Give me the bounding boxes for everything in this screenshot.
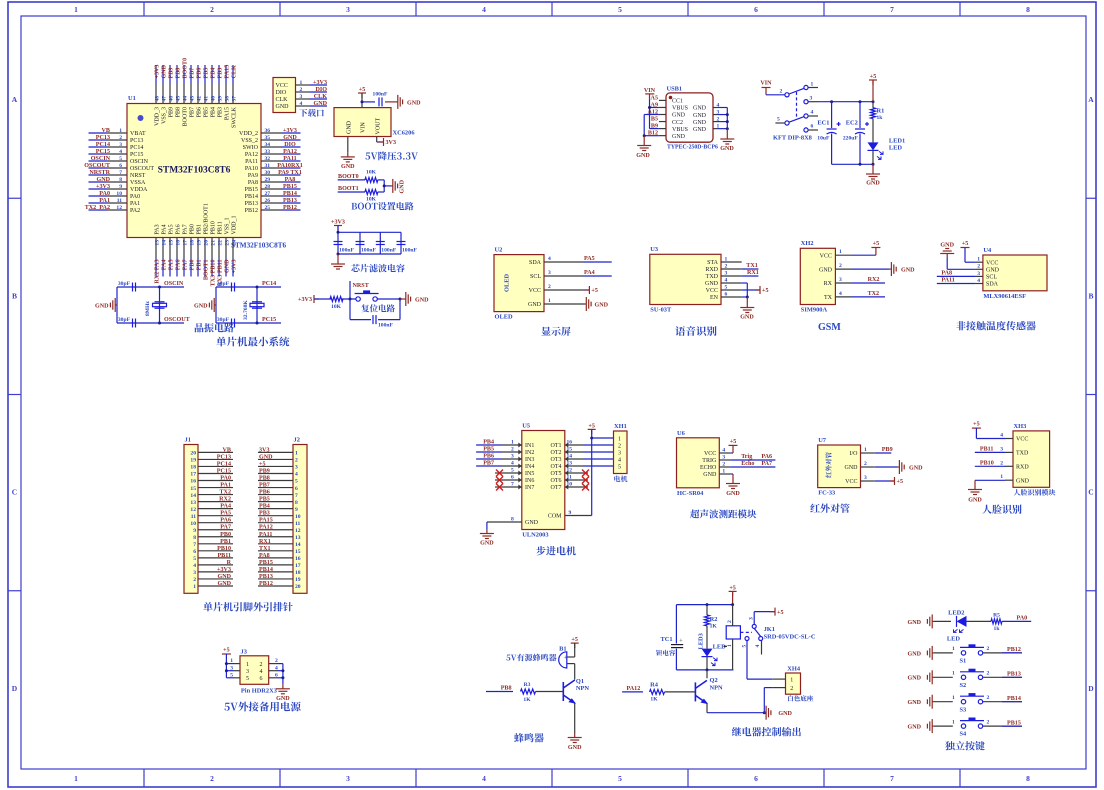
svg-text:+3V3: +3V3 [298,297,312,303]
svg-text:VSSA: VSSA [130,180,146,186]
svg-text:+5: +5 [762,288,769,294]
J1 pin 5 / net PB11 [193,553,233,562]
resistor 10K BOOT0 [365,170,378,183]
U1 pin 27 PB14 / net PB14 [245,191,301,200]
svg-text:47: 47 [162,96,168,102]
svg-text:CLK: CLK [314,94,327,100]
svg-text:GND: GND [341,164,355,170]
svg-text:21: 21 [211,240,217,246]
svg-text:PB14: PB14 [283,191,297,197]
svg-text:JK1: JK1 [764,626,775,633]
svg-text:GND: GND [1016,478,1030,484]
relay JK1 coil [726,605,740,670]
svg-text:IN1: IN1 [525,443,534,449]
svg-text:24: 24 [232,240,238,246]
svg-text:PB5: PB5 [483,447,494,453]
svg-text:PB9: PB9 [882,447,893,453]
svg-text:PA10RX1: PA10RX1 [277,163,303,169]
svg-text:RX2: RX2 [868,277,880,283]
U1 pin 43 PB7 / net PB7 [190,65,196,117]
svg-text:PC13: PC13 [96,135,110,141]
svg-text:5: 5 [119,156,122,162]
transistor Q2 NPN [695,670,723,704]
svg-text:GND: GND [283,135,297,141]
svg-text:+5: +5 [973,422,980,428]
svg-text:GND: GND [703,472,717,478]
svg-text:100nF: 100nF [378,323,394,329]
svg-text:7: 7 [295,493,298,499]
svg-text:1K: 1K [650,696,658,702]
svg-text:1: 1 [864,447,867,453]
svg-text:TX: TX [824,295,833,301]
svg-text:20: 20 [295,584,301,590]
XH4 pin 2 [764,686,793,713]
gnd earth USB right [720,129,734,152]
ic U5 ULN2003 body [522,431,565,530]
J2 pin 10 / net PB3 [258,511,301,520]
node PC15 [256,317,277,325]
svg-text:PB1: PB1 [220,539,231,545]
svg-text:2: 2 [790,686,793,692]
wire XH2 RX to RX2 [852,277,885,283]
svg-text:28: 28 [265,184,271,190]
svg-text:PB5: PB5 [204,68,210,79]
J2 pin 9 / net PB4 [258,504,298,513]
J2 pin 18 / net PB14 [258,567,301,576]
svg-text:PB7: PB7 [483,461,494,467]
svg-text:PA5: PA5 [169,224,175,234]
svg-text:PB4: PB4 [483,440,494,446]
svg-text:GND: GND [907,676,921,682]
label download port [299,109,324,117]
J1 pin 11 / net PA5 [191,511,233,520]
svg-text:+3V3: +3V3 [331,220,345,226]
ic U3 SU-03T body [650,254,721,304]
gnd earth USB left [636,136,651,159]
svg-text:GND: GND [693,106,707,112]
svg-text:HC-SR04: HC-SR04 [677,490,704,497]
svg-text:8: 8 [193,535,196,541]
svg-text:23: 23 [225,240,231,246]
svg-text:PB4: PB4 [211,68,217,79]
U6 pin 3 TRIG [702,454,730,464]
svg-text:PB2/BOOT1: PB2/BOOT1 [204,203,210,234]
svg-text:6: 6 [754,774,758,783]
svg-text:4: 4 [295,472,298,478]
capacitor 100nF filter 1 [334,242,355,254]
U1 pin 4 PC15 / net PC15 [89,149,144,158]
wire relay NO to XH4 pin1 [747,641,772,680]
svg-text:B1: B1 [559,646,566,653]
svg-text:3: 3 [295,465,298,471]
resistor 10K reset [330,297,343,311]
U5 pin 13 OT4 [551,461,584,471]
label buzzer [514,733,544,742]
U1 pin 21 PB10 / net TX3&#160;PB10 [211,221,217,286]
U5 pin 8 GND [487,517,539,527]
J2 pin 12 / net PA12 [258,525,301,534]
svg-text:GND: GND [568,745,582,751]
J3 pins 1/2 [226,658,283,668]
U4 pin 4 SDA [976,278,999,288]
capacitor 30pF bottom crystal1 [118,317,136,328]
svg-text:3: 3 [246,669,249,675]
gnd port U4 [940,243,975,270]
svg-text:4: 4 [755,645,761,648]
wire relay NC stub [761,641,763,655]
svg-text:8: 8 [295,500,298,506]
label independent buttons [945,741,985,750]
J1 pin 1 / net GND [193,581,233,590]
svg-text:OSCOUT: OSCOUT [130,166,154,172]
svg-text:10K: 10K [331,304,342,310]
svg-text:100nF: 100nF [361,248,377,254]
wire U6 VCC to +5 [729,439,738,453]
J1 pin 10 / net PA6 [190,518,233,527]
svg-text:5: 5 [230,672,233,678]
svg-text:18: 18 [295,570,301,576]
svg-text:VSS_3: VSS_3 [162,107,168,124]
svg-text:A: A [1088,95,1094,104]
svg-text:100nF: 100nF [402,248,418,254]
svg-text:PB0: PB0 [190,260,196,271]
svg-text:25: 25 [265,205,271,211]
svg-text:VSS_2: VSS_2 [241,138,258,144]
svg-text:34: 34 [265,142,271,148]
svg-text:2: 2 [725,263,728,269]
U1 pin 18 PB0 / net PB0 [190,224,196,276]
U1 pin 48 VDD_3 / net +3V3 [155,65,161,126]
J1 pin 12 / net PA4 [190,504,233,513]
svg-text:GND: GND [162,64,168,78]
svg-text:2: 2 [548,284,551,290]
U6 pin 2 ECHO [700,461,730,471]
XH4 pin 1 [772,677,793,683]
svg-text:SDA: SDA [986,282,999,288]
U1 pin 36 VDD_2 / net +3V3 [239,128,301,137]
svg-text:GND: GND [480,541,494,547]
label 5V backup power [224,702,300,712]
svg-text:VOUT: VOUT [376,118,382,135]
svg-text:PB9: PB9 [169,107,175,117]
svg-text:OLED: OLED [504,274,511,292]
svg-text:SWIO: SWIO [243,145,259,151]
svg-text:GND: GND [693,127,707,133]
svg-text:U7: U7 [818,437,827,444]
svg-text:14: 14 [162,240,168,246]
wire U4 SCL to PA8 [937,270,976,276]
svg-text:TX2: TX2 [219,490,231,496]
capacitor 30pF top crystal1 [118,281,136,292]
svg-text:VIN: VIN [361,122,367,133]
svg-text:XC6206: XC6206 [393,130,416,137]
+3V3 power port reset [298,295,319,303]
svg-text:PC15: PC15 [262,317,276,323]
svg-text:PA2: PA2 [130,208,140,214]
relay contacts [740,624,762,640]
XH3 pin 2 RXD [1000,460,1029,470]
svg-text:BOOT0: BOOT0 [183,107,189,126]
svg-text:+5: +5 [873,241,880,247]
connector J1 body [184,445,198,594]
U1 pin 37 SWCLK / net CLK [232,65,238,128]
svg-text:39: 39 [218,96,224,102]
svg-text:29: 29 [265,177,271,183]
power port 3V3 [379,138,384,146]
svg-text:5: 5 [777,117,780,123]
svg-text:PA9: PA9 [248,173,258,179]
svg-text:STM32F103C8T6: STM32F103C8T6 [231,242,287,250]
svg-text:SRD-05VDC-SL-C: SRD-05VDC-SL-C [764,633,816,640]
mcu U1 STM32F103C8T6 body [127,104,261,238]
svg-text:TX2: TX2 [868,291,880,297]
svg-text:PA10: PA10 [245,166,258,172]
+5 power port U4 [961,241,976,262]
U5 pin 7 IN7 [502,482,534,492]
svg-text:PA11: PA11 [283,156,296,162]
svg-text:1: 1 [839,249,842,255]
gnd port button S3 row [907,695,952,709]
svg-text:+3V3: +3V3 [96,184,110,190]
svg-text:SDA: SDA [529,260,542,266]
svg-text:3: 3 [725,270,728,276]
svg-text:B5: B5 [651,117,658,123]
svg-text:1K: 1K [523,697,531,703]
svg-text:OSCOUT: OSCOUT [84,163,110,169]
svg-text:GND: GND [740,315,754,321]
svg-text:PB11: PB11 [217,553,231,559]
U6 pin 1 GND [703,468,730,478]
J1 pin 3 / net +3V3 [193,567,233,576]
svg-text:19: 19 [197,240,203,246]
svg-text:Trig: Trig [741,454,752,460]
gnd port LED2 row [907,614,951,628]
U1 pin 16 PA6 / net PA6 [176,224,182,276]
svg-text:PB15: PB15 [1007,720,1021,726]
svg-text:2: 2 [210,774,214,783]
U1 pin 35 VSS_2 / net GND [241,135,301,144]
svg-text:PB4: PB4 [259,504,270,510]
label MCU pin headers [203,602,292,611]
wire S2 to PB13 [983,672,1022,678]
crystal Y2 32.768K [243,300,264,320]
svg-text:VCC: VCC [706,288,718,294]
J1 pin 20 / net VB [190,447,233,456]
svg-text:2: 2 [987,719,990,725]
U3 pin 5 VCC [706,284,742,294]
svg-text:8: 8 [511,517,514,523]
wire U6 TRIG to PA6 [730,454,775,460]
svg-text:U1: U1 [128,95,136,102]
wire U3 TXD to RX1 [742,270,759,276]
download port pin 4 GND / net GND [276,101,328,110]
svg-text:VCC: VCC [820,253,832,259]
USB1 pin B12 GND [648,131,686,140]
U1 pin 42 PB6 / net PB6 [197,65,203,117]
svg-text:GND: GND [415,297,429,303]
svg-text:R: R [227,560,232,566]
svg-text:R4: R4 [650,681,659,688]
svg-text:4: 4 [300,101,303,107]
svg-text:PA0: PA0 [1017,615,1028,621]
USB right bus wire [726,108,729,131]
label voice recognition [675,326,716,336]
svg-text:8: 8 [119,177,122,183]
svg-text:15: 15 [169,240,175,246]
svg-text:PA4: PA4 [162,260,168,271]
svg-text:10: 10 [295,514,301,520]
svg-text:PB3: PB3 [218,107,224,117]
svg-text:USB1: USB1 [667,86,683,93]
svg-text:CLK: CLK [232,65,238,78]
U5 pin 9 COM [548,510,592,520]
USB1 right pin GND 3 [693,109,727,118]
svg-text:PA15: PA15 [225,107,231,120]
relay top rail [676,603,734,606]
U1 pin 10 PA0 / net PA0 [89,191,141,200]
svg-text:LED2: LED2 [948,610,964,617]
svg-text:PB15: PB15 [259,560,273,566]
svg-text:GND: GND [720,146,734,152]
svg-text:GND: GND [400,179,406,193]
wire U3 GND/EN to gnd [742,283,749,303]
label BOOT setting circuit [351,202,413,210]
svg-text:VDD_3: VDD_3 [155,107,161,126]
svg-text:SCL: SCL [530,274,541,280]
svg-text:PA5: PA5 [169,260,175,271]
svg-text:GND: GND [940,243,954,249]
svg-text:GND: GND [407,100,421,106]
wire XH2 TX to TX2 [852,291,885,297]
svg-text:8: 8 [1026,5,1030,14]
svg-text:XH2: XH2 [801,240,814,247]
svg-text:GND: GND [276,696,290,702]
reset circuit wires [314,298,404,320]
svg-text:42: 42 [197,96,203,102]
svg-text:SIM900A: SIM900A [801,307,828,314]
wire S1 to PB12 [983,647,1022,653]
svg-text:PB15: PB15 [245,187,258,193]
wire BOOT junction to gnd [383,180,391,192]
svg-text:12: 12 [295,528,301,534]
+5 power port XH3 [972,422,1005,439]
U1 pin 24 VDD_1 / net +3V3 [232,216,238,277]
wire S3 to PB14 [983,696,1022,702]
svg-text:PB8: PB8 [176,68,182,79]
svg-text:GND: GND [636,153,650,159]
svg-text:LED1: LED1 [889,137,905,144]
svg-text:PC15: PC15 [96,149,110,155]
+5 power port relay [729,585,737,604]
svg-text:3V3: 3V3 [386,140,397,146]
VIN power port USB [644,88,656,100]
U1 pin 40 PB4 / net PB4 [211,65,217,117]
svg-text:22: 22 [218,240,224,246]
svg-text:31: 31 [265,163,271,169]
wire relay common to +5 [754,608,783,625]
svg-text:3: 3 [119,142,122,148]
svg-text:FC-33: FC-33 [818,490,835,497]
+5 power port J3 [222,648,231,678]
connector J3 body [240,656,269,685]
svg-text:EN: EN [710,295,719,301]
U5 pin 10 OT7 [551,482,584,492]
svg-text:OT4: OT4 [551,464,562,470]
gnd port button S1 row [907,646,952,660]
svg-text:3: 3 [346,5,350,14]
U5 pin 1 IN1 [502,440,534,450]
gnd power port relay [764,706,792,720]
svg-text:13: 13 [190,500,196,506]
svg-text:NPN: NPN [710,685,724,692]
svg-text:PC15: PC15 [130,152,143,158]
svg-text:BOOT0: BOOT0 [338,174,359,180]
svg-text:2: 2 [618,443,621,449]
svg-text:16: 16 [176,240,182,246]
svg-text:PA12: PA12 [283,149,297,155]
J3 pins 3/4 [226,665,283,675]
svg-text:4: 4 [260,669,263,675]
svg-text:4: 4 [618,457,621,463]
gnd port button S4 row [907,719,952,733]
U2 pin 3 SCL [530,270,583,280]
svg-text:19: 19 [190,458,196,464]
svg-text:PA0: PA0 [130,194,140,200]
switch S4 [960,718,985,738]
relay bottom rail [676,668,733,671]
svg-text:DIO: DIO [284,142,296,148]
J2 pin 14 / net RX1 [258,539,301,548]
svg-text:+5: +5 [223,648,230,654]
svg-text:3: 3 [864,475,867,481]
capacitor EC2 220uF [843,102,869,165]
svg-text:PB6: PB6 [259,490,270,496]
svg-text:PB9: PB9 [169,68,175,79]
svg-text:PC14: PC14 [217,461,231,467]
svg-text:VSS_1: VSS_1 [225,217,231,234]
svg-text:PC13: PC13 [130,138,143,144]
XH3 pin 4 VCC [1000,433,1028,443]
switch S1 [960,644,985,664]
wire XH3 TXD to PB11 [975,446,1005,452]
svg-text:VCC: VCC [1016,437,1028,443]
ic U4 MLX90614ESF body [983,255,1047,291]
wire U7 I/O to PB9 [875,447,893,453]
switch S3 [960,693,985,713]
svg-text:GND: GND [96,177,110,183]
svg-text:CC2: CC2 [672,120,683,126]
label stepper motor [536,546,575,555]
svg-text:2: 2 [511,447,514,453]
svg-text:6: 6 [119,163,122,169]
svg-text:+5: +5 [729,585,736,591]
svg-text:XH1: XH1 [614,423,627,430]
XH2 pin 1 VCC [820,249,852,259]
svg-text:VBUS: VBUS [672,106,688,112]
svg-text:VIN: VIN [644,88,656,94]
svg-text:GND: GND [705,281,719,287]
J2 pin 8 / net PB5 [258,497,298,506]
J1 pin 4 / net R [193,560,233,569]
svg-text:35: 35 [265,135,271,141]
J2 pin 16 / net PA8 [258,553,301,562]
svg-text:PB13: PB13 [1007,672,1021,678]
capacitor 30pF top crystal2 [217,281,235,292]
svg-text:S2: S2 [960,682,967,689]
svg-text:2: 2 [722,461,725,467]
svg-text:TYPEC-250D-BCP6: TYPEC-250D-BCP6 [667,145,718,151]
svg-text:30pF: 30pF [118,317,131,323]
